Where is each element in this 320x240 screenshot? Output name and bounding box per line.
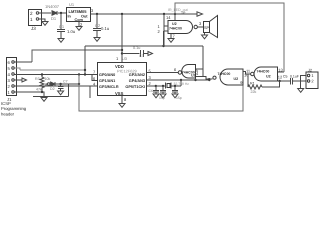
svg-text:U1: U1 bbox=[69, 2, 75, 7]
wire diode to regulator bbox=[58, 12, 66, 14]
svg-text:3: 3 bbox=[199, 21, 202, 26]
svg-text:U2: U2 bbox=[191, 74, 196, 78]
ground bbox=[298, 89, 304, 93]
C7 label bbox=[63, 80, 68, 84]
svg-text:2: 2 bbox=[149, 81, 152, 86]
svg-text:LM78M05: LM78M05 bbox=[69, 9, 88, 14]
speaker labels bbox=[204, 26, 210, 30]
junction dot y53 bbox=[121, 52, 123, 54]
svg-text:74HC00: 74HC00 bbox=[218, 72, 231, 76]
svg-text:1: 1 bbox=[116, 56, 119, 61]
capacitor C8 right load bbox=[172, 86, 178, 94]
C3 label bbox=[133, 46, 144, 58]
svg-text:0.1u: 0.1u bbox=[101, 26, 110, 31]
ground bbox=[94, 38, 100, 42]
svg-text:GP5/T1CKI: GP5/T1CKI bbox=[125, 85, 145, 89]
svg-text:4: 4 bbox=[8, 72, 11, 77]
junction dots bbox=[180, 79, 211, 81]
svg-text:J3: J3 bbox=[31, 26, 36, 31]
svg-text:GP4/AN3: GP4/AN3 bbox=[129, 79, 145, 83]
U3 GP5 wire y86 bbox=[147, 85, 166, 87]
svg-text:3: 3 bbox=[8, 78, 11, 83]
svg-text:C3: C3 bbox=[139, 54, 144, 58]
U3 GP2 wire to gate A output bbox=[147, 72, 178, 74]
svg-text:1: 1 bbox=[30, 17, 33, 22]
svg-text:2: 2 bbox=[311, 79, 314, 84]
U2C input 12 wire bbox=[278, 80, 291, 82]
svg-text:6: 6 bbox=[8, 60, 11, 65]
J1 pin5 wire bbox=[15, 68, 21, 70]
svg-text:7: 7 bbox=[93, 70, 96, 75]
resistor R3 bbox=[40, 75, 44, 93]
pin 14 label bbox=[166, 15, 171, 20]
U2D pin7 ground bbox=[170, 34, 172, 39]
U2D labels bbox=[158, 21, 203, 39]
ground bbox=[119, 104, 125, 108]
right cap label bbox=[176, 96, 182, 100]
junction dots on VDD rail bbox=[96, 13, 176, 15]
U2A input 4 wire to gate B output bbox=[203, 76, 212, 79]
U3 labels bbox=[93, 56, 152, 102]
svg-text:4: 4 bbox=[196, 71, 199, 76]
long route pin4 node to gate B input 9 bbox=[79, 75, 243, 112]
svg-text:74HC00: 74HC00 bbox=[257, 70, 270, 74]
U1 Com pin to ground bbox=[78, 22, 80, 27]
signal line y70 bbox=[20, 69, 85, 71]
wire top loop to gate C input 13 bbox=[175, 3, 284, 72]
svg-text:15p: 15p bbox=[159, 96, 165, 100]
junction dot bbox=[84, 69, 86, 71]
J1 pin1 wire to ground bbox=[15, 92, 45, 97]
svg-text:C7: C7 bbox=[63, 80, 68, 84]
svg-text:C5: C5 bbox=[283, 75, 288, 79]
svg-text:74HC00: 74HC00 bbox=[169, 27, 182, 31]
R3 labels bbox=[35, 77, 50, 81]
U3 GP4 wire y80 bbox=[147, 79, 209, 81]
U2B labels bbox=[218, 72, 250, 85]
C6 labels bbox=[149, 89, 153, 93]
ground bbox=[202, 35, 208, 39]
diode D1 1N4007 bbox=[52, 11, 57, 15]
U3 VSS pin to ground bbox=[121, 96, 123, 103]
signal line y46 bbox=[85, 45, 203, 47]
svg-text:U2: U2 bbox=[234, 77, 239, 81]
J1 pin6 wire bbox=[15, 61, 33, 63]
U2A labels bbox=[182, 68, 199, 78]
svg-text:C6: C6 bbox=[149, 89, 153, 93]
svg-text:TP: TP bbox=[181, 11, 186, 15]
ground bbox=[168, 39, 174, 43]
junction dot bbox=[162, 45, 164, 47]
svg-text:10k: 10k bbox=[45, 77, 51, 81]
junction dots bbox=[78, 73, 86, 75]
U2D output wire to speaker bbox=[198, 26, 204, 28]
R1 labels bbox=[250, 82, 256, 94]
jog to U3 GP1 bbox=[92, 75, 97, 81]
ground bbox=[76, 27, 82, 31]
svg-text:1N4007: 1N4007 bbox=[45, 4, 60, 9]
U2B input 10 wire to gate C output bbox=[243, 72, 250, 75]
svg-text:J2: J2 bbox=[308, 68, 312, 72]
IC U3 PIC12F629 bbox=[98, 63, 147, 96]
ground bbox=[58, 91, 64, 95]
svg-text:3: 3 bbox=[149, 75, 152, 80]
svg-text:2: 2 bbox=[158, 29, 161, 34]
svg-text:SP: SP bbox=[204, 26, 210, 30]
svg-text:0.1u: 0.1u bbox=[133, 46, 140, 50]
svg-text:22k: 22k bbox=[251, 90, 257, 94]
svg-text:R3: R3 bbox=[35, 77, 40, 81]
svg-text:In: In bbox=[68, 15, 72, 19]
J1 pin2 wire MCLR to U3 GP3 bbox=[15, 85, 98, 87]
svg-text:GP3/MCLR: GP3/MCLR bbox=[99, 85, 119, 89]
diode D2 bbox=[46, 82, 79, 86]
ground bbox=[153, 94, 159, 98]
ground bbox=[41, 98, 47, 102]
wire J3 pin1 to ground bbox=[39, 19, 45, 21]
svg-text:U2: U2 bbox=[172, 22, 177, 26]
J2 labels bbox=[308, 68, 314, 83]
nand gate U2A (faces left) bbox=[178, 65, 195, 79]
C2 labels bbox=[95, 23, 110, 31]
speaker ground wire bbox=[204, 33, 206, 35]
ICSP text bbox=[1, 101, 27, 116]
svg-text:47k: 47k bbox=[36, 88, 42, 92]
J2 pin1 to ground bbox=[301, 76, 306, 89]
svg-text:7: 7 bbox=[173, 34, 176, 39]
svg-text:3: 3 bbox=[91, 8, 94, 13]
junction dots R3 bbox=[41, 73, 43, 93]
J3 pin labels bbox=[30, 11, 36, 31]
off-page arrow VDD bbox=[197, 12, 203, 16]
D2 label bbox=[36, 87, 55, 92]
mid cap label bbox=[159, 96, 165, 100]
VDD rail from U1 out bbox=[90, 13, 197, 15]
crystal label bbox=[174, 82, 190, 86]
capacitor C5 bbox=[290, 78, 306, 85]
svg-text:GP0/AN0: GP0/AN0 bbox=[99, 73, 115, 77]
capacitor C7b mid load bbox=[160, 86, 166, 94]
capacitor C2 bbox=[93, 14, 101, 37]
junction dots y86 bbox=[155, 85, 177, 87]
svg-text:R1: R1 bbox=[250, 82, 255, 86]
connector J2 bbox=[306, 72, 318, 89]
wire from J1 pin6 VDD bbox=[32, 50, 122, 62]
nand gate U2D bbox=[168, 21, 197, 34]
svg-text:8: 8 bbox=[124, 97, 127, 102]
gate A output label bbox=[174, 67, 177, 72]
wire y46 right end down to gate A input 5 bbox=[202, 46, 204, 76]
U2C labels bbox=[246, 68, 284, 80]
svg-text:5: 5 bbox=[8, 66, 11, 71]
svg-text:GP1/AN1: GP1/AN1 bbox=[99, 79, 115, 83]
junction dot y50 bbox=[121, 49, 123, 51]
C5 labels bbox=[283, 75, 299, 79]
svg-text:header: header bbox=[1, 111, 15, 116]
crystal X1 bbox=[166, 83, 181, 89]
J1 pin4 wire to U3 GP0 bbox=[15, 74, 98, 76]
U2D input stubs bbox=[164, 26, 168, 31]
wire VDD drop to U3 bbox=[121, 14, 123, 62]
off-page arrow right bbox=[148, 52, 153, 56]
node dot C1 tap bbox=[60, 12, 62, 14]
wire crystal right node up bbox=[180, 80, 182, 86]
off-page arrow bbox=[22, 78, 27, 82]
svg-text:D1: D1 bbox=[51, 16, 57, 21]
capacitor C1 bbox=[57, 13, 65, 38]
capacitor C7 bbox=[58, 84, 64, 91]
svg-text:15p: 15p bbox=[176, 96, 182, 100]
ground bbox=[172, 94, 178, 98]
ICSP connector J1 bbox=[7, 58, 17, 96]
svg-text:1: 1 bbox=[8, 90, 11, 95]
svg-text:D2: D2 bbox=[50, 87, 55, 91]
J1 pin labels bbox=[7, 60, 12, 102]
capacitor C6 left load bbox=[153, 86, 159, 94]
junction dot bbox=[278, 80, 280, 82]
svg-text:11: 11 bbox=[246, 69, 251, 74]
svg-text:VSS: VSS bbox=[115, 91, 124, 96]
diode labels bbox=[45, 4, 60, 21]
junction dot bbox=[59, 83, 61, 85]
svg-text:U3: U3 bbox=[122, 57, 127, 61]
VDD rail label bbox=[168, 8, 188, 15]
svg-text:U2: U2 bbox=[266, 75, 271, 79]
ground bbox=[42, 22, 48, 26]
U2C input 13 stub bbox=[278, 71, 285, 73]
svg-text:6: 6 bbox=[174, 67, 177, 72]
resistor R1 feedback bbox=[248, 74, 280, 89]
C1 labels bbox=[59, 24, 76, 34]
nand gate U2C (faces left) bbox=[251, 67, 278, 81]
svg-text:1.0u: 1.0u bbox=[67, 29, 76, 34]
capacitor C3 stub bbox=[122, 50, 148, 57]
svg-text:0.1uF: 0.1uF bbox=[290, 75, 299, 79]
svg-text:C2: C2 bbox=[95, 23, 101, 28]
ground bbox=[160, 94, 166, 98]
ground bbox=[58, 39, 64, 43]
gate U2D power pin 14 drop bbox=[163, 14, 165, 46]
J1 pin3 stub with arrow bbox=[15, 79, 23, 81]
regulator U1 LM78M05 bbox=[67, 8, 91, 22]
U1 labels bbox=[68, 2, 95, 27]
svg-text:14: 14 bbox=[166, 15, 171, 20]
wire y46 left end down bbox=[84, 46, 86, 75]
nand gate U2B (faces left) bbox=[213, 69, 243, 85]
connector J3 bbox=[29, 10, 42, 26]
svg-text:C1: C1 bbox=[59, 24, 65, 29]
wire J3 pin2 to diode bbox=[39, 12, 51, 14]
svg-text:1: 1 bbox=[311, 73, 314, 78]
svg-text:2: 2 bbox=[8, 84, 11, 89]
svg-text:2: 2 bbox=[30, 11, 33, 16]
wire gate inputs to y46 line bbox=[163, 31, 165, 46]
speaker SP bbox=[204, 16, 218, 38]
svg-text:GP2/AN2: GP2/AN2 bbox=[129, 73, 145, 77]
